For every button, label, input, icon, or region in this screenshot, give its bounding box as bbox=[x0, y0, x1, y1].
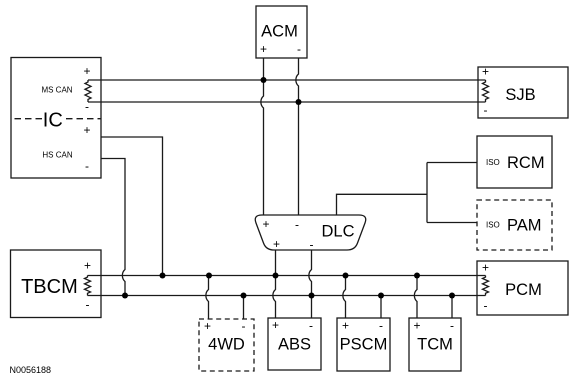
svg-text:+: + bbox=[482, 65, 489, 79]
svg-text:+: + bbox=[260, 42, 267, 56]
svg-text:ISO: ISO bbox=[486, 221, 500, 230]
svg-text:-: - bbox=[85, 159, 89, 173]
svg-text:+: + bbox=[272, 318, 279, 332]
svg-text:PCM: PCM bbox=[505, 281, 542, 299]
svg-text:TBCM: TBCM bbox=[21, 276, 78, 298]
svg-text:-: - bbox=[310, 238, 314, 252]
svg-text:-: - bbox=[85, 100, 89, 114]
svg-text:+: + bbox=[413, 319, 420, 333]
svg-text:TCM: TCM bbox=[417, 336, 453, 354]
svg-text:ACM: ACM bbox=[261, 23, 298, 41]
svg-text:PSCM: PSCM bbox=[340, 336, 388, 354]
svg-text:-: - bbox=[242, 319, 246, 333]
svg-text:+: + bbox=[262, 217, 269, 231]
svg-text:ABS: ABS bbox=[278, 336, 311, 354]
svg-text:+: + bbox=[342, 319, 349, 333]
svg-text:IC: IC bbox=[43, 110, 63, 132]
svg-text:N0056188: N0056188 bbox=[10, 365, 52, 375]
svg-text:+: + bbox=[482, 261, 489, 275]
svg-text:-: - bbox=[309, 319, 313, 333]
svg-text:-: - bbox=[295, 218, 299, 232]
svg-text:HS CAN: HS CAN bbox=[42, 151, 72, 160]
svg-text:SJB: SJB bbox=[505, 86, 535, 104]
svg-text:MS CAN: MS CAN bbox=[41, 86, 72, 95]
svg-text:PAM: PAM bbox=[507, 217, 542, 235]
svg-text:-: - bbox=[379, 319, 383, 333]
svg-text:-: - bbox=[86, 298, 90, 312]
svg-text:RCM: RCM bbox=[507, 154, 545, 172]
svg-text:-: - bbox=[297, 42, 301, 56]
svg-text:4WD: 4WD bbox=[208, 336, 245, 354]
svg-text:+: + bbox=[84, 259, 91, 273]
svg-text:-: - bbox=[484, 103, 488, 117]
svg-text:-: - bbox=[450, 319, 454, 333]
svg-text:+: + bbox=[273, 237, 280, 251]
svg-text:-: - bbox=[484, 299, 488, 313]
svg-text:+: + bbox=[83, 64, 90, 78]
svg-text:+: + bbox=[83, 123, 90, 137]
svg-text:+: + bbox=[204, 319, 211, 333]
svg-text:ISO: ISO bbox=[486, 158, 500, 167]
svg-text:DLC: DLC bbox=[322, 223, 355, 241]
